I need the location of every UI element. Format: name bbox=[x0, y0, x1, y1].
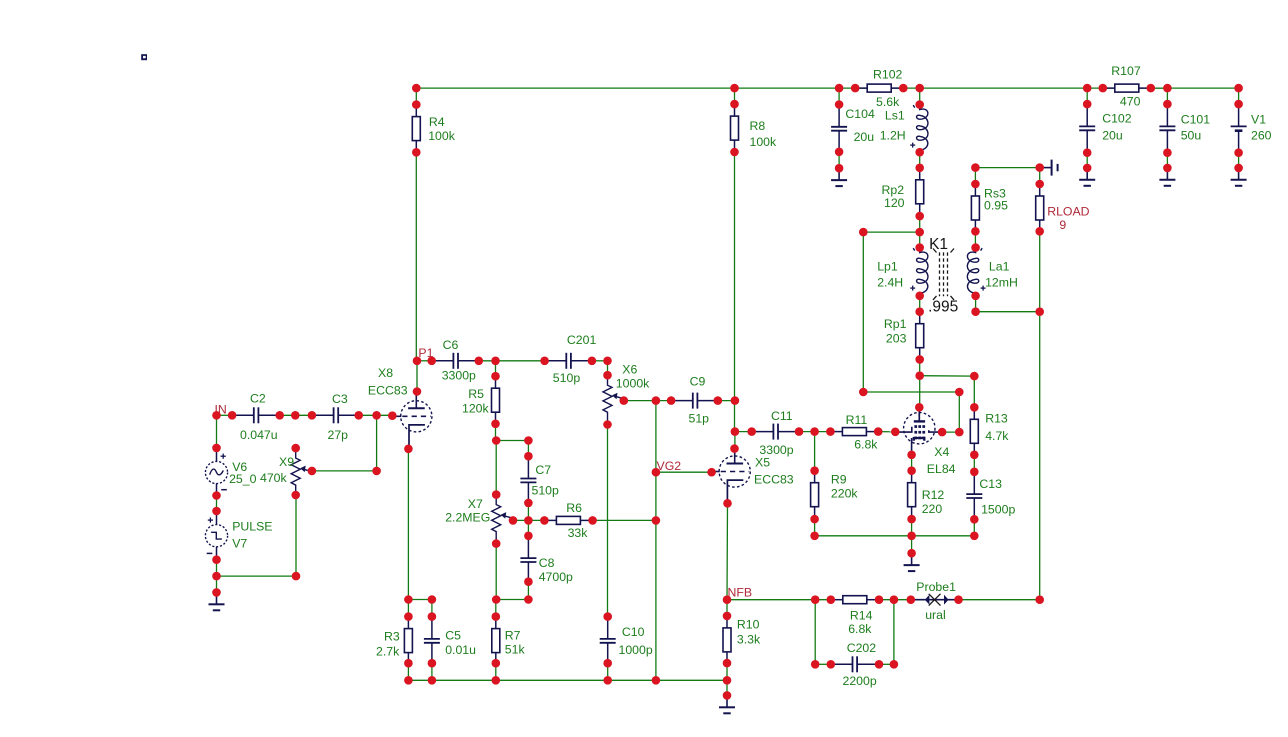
wire Rs3 to RLOAD top bbox=[975, 167, 1039, 169]
junction bbox=[212, 555, 221, 564]
svg-text:V7: V7 bbox=[232, 537, 247, 551]
wire bbox=[973, 519, 975, 536]
wire bbox=[496, 440, 528, 442]
junction bbox=[811, 595, 820, 604]
wire RLOAD to NFB row bbox=[1039, 312, 1041, 600]
wire bbox=[216, 496, 218, 512]
svg-text:R107: R107 bbox=[1111, 64, 1141, 78]
svg-text:1000p: 1000p bbox=[619, 643, 653, 657]
junction bbox=[428, 676, 437, 685]
resistor Rp2 bbox=[882, 168, 924, 216]
svg-text:C2: C2 bbox=[250, 392, 266, 406]
wire La1 to RLOAD bbox=[976, 311, 1040, 313]
capacitor C13 bbox=[966, 472, 1015, 520]
wire X6 to C10 bbox=[607, 425, 609, 617]
wire bbox=[280, 414, 312, 416]
wire X9 wiper row bbox=[312, 470, 377, 472]
svg-text:ECC83: ECC83 bbox=[754, 473, 794, 487]
junction bbox=[971, 227, 980, 236]
svg-text:6.8k: 6.8k bbox=[854, 438, 878, 452]
junction bbox=[492, 659, 501, 668]
junction bbox=[412, 84, 421, 93]
junction bbox=[954, 595, 963, 604]
ground X4 cathode bbox=[904, 553, 920, 571]
wire C202 right leg bbox=[893, 600, 895, 665]
svg-text:R12: R12 bbox=[922, 488, 945, 502]
capacitor C11 bbox=[752, 409, 800, 457]
wire bbox=[726, 663, 728, 680]
wire bbox=[359, 414, 393, 416]
wire bbox=[431, 663, 433, 680]
svg-text:VG2: VG2 bbox=[657, 459, 682, 473]
ground below C102 bbox=[1079, 168, 1095, 186]
svg-text:R13: R13 bbox=[985, 412, 1008, 426]
resistor Rp1 bbox=[884, 312, 924, 360]
inductor Lp1 bbox=[877, 248, 928, 296]
junction bbox=[524, 499, 533, 508]
svg-text:C104: C104 bbox=[845, 107, 875, 121]
resistor R3 bbox=[376, 617, 412, 665]
svg-text:510p: 510p bbox=[532, 484, 560, 498]
svg-text:2.2MEG: 2.2MEG bbox=[445, 511, 490, 525]
junction bbox=[730, 444, 739, 453]
potentiometer X9 bbox=[260, 448, 312, 496]
junction bbox=[827, 595, 836, 604]
svg-text:R4: R4 bbox=[429, 115, 445, 129]
svg-text:C201: C201 bbox=[567, 333, 597, 347]
wire bbox=[495, 361, 497, 376]
junction bbox=[971, 163, 980, 172]
junction bbox=[228, 411, 237, 420]
svg-text:R8: R8 bbox=[750, 119, 766, 133]
wire X7 wiper to R6 bbox=[513, 519, 544, 521]
wire bbox=[431, 600, 433, 617]
junction bbox=[1083, 148, 1092, 157]
junction bbox=[603, 659, 612, 668]
junction bbox=[915, 100, 924, 109]
junction bbox=[730, 100, 739, 109]
junction bbox=[524, 436, 533, 445]
svg-text:X6: X6 bbox=[622, 363, 637, 377]
svg-text:R7: R7 bbox=[505, 629, 521, 643]
resistor R107 bbox=[1103, 64, 1151, 108]
wire bbox=[495, 424, 497, 441]
capacitor C104 bbox=[831, 105, 875, 153]
svg-text:C202: C202 bbox=[847, 641, 877, 655]
junction bbox=[1035, 595, 1044, 604]
junction bbox=[915, 403, 924, 412]
resistor R7 bbox=[492, 617, 526, 665]
junction bbox=[652, 468, 661, 477]
wire bbox=[417, 360, 432, 362]
junction bbox=[835, 148, 844, 157]
wire bbox=[975, 296, 977, 312]
junction bbox=[428, 612, 437, 621]
junction bbox=[971, 243, 980, 252]
capacitor C102 bbox=[1079, 104, 1132, 152]
wire bbox=[216, 560, 218, 576]
capacitor C5 bbox=[424, 617, 476, 665]
junction bbox=[970, 451, 979, 460]
capacitor C9 bbox=[671, 374, 719, 425]
voltage source V1 bbox=[1231, 104, 1272, 152]
wire bbox=[878, 431, 895, 433]
wire bbox=[415, 88, 417, 105]
junction bbox=[971, 292, 980, 301]
junction bbox=[404, 676, 413, 685]
junction bbox=[970, 468, 979, 477]
capacitor C2 bbox=[232, 392, 280, 443]
junction bbox=[971, 180, 980, 189]
junction bbox=[428, 595, 437, 604]
potentiometer X6 bbox=[603, 363, 650, 424]
junction bbox=[404, 445, 413, 454]
wire bbox=[495, 600, 497, 617]
svg-text:3300p: 3300p bbox=[759, 443, 793, 457]
junction bbox=[730, 84, 739, 93]
junction bbox=[1234, 84, 1243, 93]
junction bbox=[723, 499, 732, 508]
wire bbox=[408, 599, 432, 601]
svg-text:6.8k: 6.8k bbox=[848, 622, 872, 636]
svg-text:C10: C10 bbox=[622, 625, 645, 639]
svg-text:1.2H: 1.2H bbox=[880, 128, 906, 142]
junction bbox=[652, 676, 661, 685]
wire bbox=[407, 663, 409, 680]
junction bbox=[427, 357, 436, 366]
wire input bottom row bbox=[217, 575, 297, 577]
wire X9 wiper up bbox=[376, 415, 378, 471]
svg-text:0.047u: 0.047u bbox=[240, 428, 278, 442]
wire X5 plate bbox=[734, 432, 736, 449]
svg-text:R10: R10 bbox=[737, 618, 760, 632]
node P1 label bbox=[418, 346, 433, 360]
svg-text:20u: 20u bbox=[1102, 128, 1123, 142]
capacitor C202 bbox=[831, 641, 879, 688]
resistor R4 bbox=[412, 105, 455, 153]
svg-text:R9: R9 bbox=[831, 473, 847, 487]
wire screen column bbox=[958, 392, 960, 432]
svg-text:R5: R5 bbox=[468, 387, 484, 401]
wire bbox=[942, 431, 959, 433]
junction bbox=[835, 100, 844, 109]
resistor Rs3 bbox=[971, 184, 1008, 232]
svg-text:X9: X9 bbox=[279, 455, 294, 469]
svg-text:0.95: 0.95 bbox=[984, 198, 1008, 212]
junction bbox=[1035, 307, 1044, 316]
wire bbox=[919, 216, 921, 232]
junction bbox=[955, 428, 964, 437]
junction bbox=[810, 466, 819, 475]
wire tap vertical bbox=[862, 232, 864, 392]
junction bbox=[827, 660, 836, 669]
junction bbox=[1163, 100, 1172, 109]
pentode X4 (EL84) bbox=[895, 407, 955, 476]
svg-text:C5: C5 bbox=[445, 629, 461, 643]
wire bbox=[799, 431, 830, 433]
wire to X7 top bbox=[495, 441, 497, 495]
junction bbox=[412, 148, 421, 157]
junction bbox=[875, 660, 884, 669]
wire bbox=[814, 432, 816, 471]
wire X6 wiper to C9 bbox=[624, 400, 671, 402]
junction bbox=[212, 588, 221, 597]
capacitor C7 bbox=[520, 456, 559, 504]
svg-text:La1: La1 bbox=[989, 260, 1010, 274]
junction bbox=[723, 612, 732, 621]
junction bbox=[588, 357, 597, 366]
junction bbox=[308, 467, 317, 476]
junction bbox=[388, 411, 397, 420]
junction bbox=[603, 676, 612, 685]
junction bbox=[811, 660, 820, 669]
svg-text:NFB: NFB bbox=[728, 586, 753, 600]
resistor R5 bbox=[462, 376, 500, 424]
wire bbox=[527, 441, 529, 457]
junction bbox=[491, 357, 500, 366]
svg-text:220k: 220k bbox=[831, 487, 859, 501]
junction bbox=[915, 243, 924, 252]
svg-text:C3: C3 bbox=[332, 392, 348, 406]
wire bbox=[838, 88, 840, 104]
junction bbox=[1035, 180, 1044, 189]
wire bbox=[718, 400, 735, 402]
capacitor C10 bbox=[600, 617, 653, 665]
svg-text:27p: 27p bbox=[328, 428, 349, 442]
junction bbox=[588, 516, 597, 525]
svg-text:470k: 470k bbox=[260, 471, 288, 485]
wire bbox=[911, 519, 913, 536]
junction bbox=[859, 228, 868, 237]
junction bbox=[1083, 84, 1092, 93]
probe Probe1 bbox=[911, 580, 959, 622]
resistor R8 bbox=[731, 104, 778, 152]
junction bbox=[652, 396, 661, 405]
svg-text:1500p: 1500p bbox=[981, 503, 1015, 517]
ground below V1 bbox=[1231, 168, 1247, 186]
wire bbox=[1166, 153, 1168, 168]
junction bbox=[723, 691, 732, 700]
junction bbox=[1083, 164, 1092, 173]
junction bbox=[915, 292, 924, 301]
junction bbox=[524, 577, 533, 586]
junction bbox=[723, 659, 732, 668]
resistor R10 bbox=[723, 616, 761, 664]
wire bbox=[216, 576, 218, 592]
junction bbox=[540, 516, 549, 525]
resistor R13 bbox=[970, 407, 1009, 455]
junction bbox=[851, 84, 860, 93]
ground input bbox=[209, 592, 225, 610]
wire bbox=[527, 520, 529, 535]
junction bbox=[747, 427, 756, 436]
junction bbox=[955, 388, 964, 397]
svg-text:2200p: 2200p bbox=[843, 674, 877, 688]
junction bbox=[1163, 84, 1172, 93]
wire bbox=[974, 231, 976, 247]
wire bbox=[973, 455, 975, 472]
svg-text:2.7k: 2.7k bbox=[376, 645, 400, 659]
junction bbox=[1083, 100, 1092, 109]
junction bbox=[291, 491, 300, 500]
svg-text:4.7k: 4.7k bbox=[985, 429, 1009, 443]
junction bbox=[907, 466, 916, 475]
ground below C104 bbox=[831, 168, 847, 186]
svg-text:120: 120 bbox=[884, 196, 905, 210]
svg-text:0.01u: 0.01u bbox=[445, 643, 476, 657]
svg-text:51k: 51k bbox=[505, 643, 526, 657]
junction bbox=[915, 355, 924, 364]
wire bbox=[1039, 168, 1041, 184]
wire X9 bottom bbox=[295, 495, 297, 576]
junction bbox=[875, 595, 884, 604]
junction bbox=[492, 539, 501, 548]
junction bbox=[915, 371, 924, 380]
wire bbox=[607, 663, 609, 680]
svg-text:C13: C13 bbox=[979, 477, 1002, 491]
wire bbox=[1039, 231, 1041, 311]
inductor Ls1 bbox=[880, 105, 928, 153]
junction bbox=[372, 467, 381, 476]
junction bbox=[212, 491, 221, 500]
svg-text:X5: X5 bbox=[755, 456, 770, 470]
svg-text:ECC83: ECC83 bbox=[368, 383, 408, 397]
junction bbox=[859, 388, 868, 397]
junction bbox=[308, 411, 317, 420]
wire bbox=[919, 232, 921, 248]
junction bbox=[970, 403, 979, 412]
svg-text:51p: 51p bbox=[689, 411, 710, 425]
junction bbox=[404, 659, 413, 668]
wire bbox=[879, 663, 894, 665]
wire plate to R13 bbox=[919, 375, 975, 377]
junction bbox=[874, 427, 883, 436]
junction bbox=[1163, 148, 1172, 157]
capacitor C3 bbox=[312, 392, 360, 442]
junction bbox=[707, 468, 716, 477]
junction bbox=[292, 572, 301, 581]
junction bbox=[603, 420, 612, 429]
wire VG2 to X5 grid bbox=[656, 471, 712, 473]
junction bbox=[212, 411, 221, 420]
resistor R12 bbox=[908, 471, 945, 519]
junction bbox=[509, 516, 518, 525]
junction bbox=[212, 572, 221, 581]
junction bbox=[970, 515, 979, 524]
wire bbox=[973, 376, 975, 407]
wire bbox=[838, 152, 840, 168]
junction bbox=[1163, 164, 1172, 173]
voltage source V7 bbox=[205, 511, 272, 560]
wire top supply rail bbox=[416, 87, 1238, 89]
wire bbox=[911, 536, 913, 553]
svg-text:1000k: 1000k bbox=[616, 377, 650, 391]
wire bbox=[919, 152, 921, 168]
junction bbox=[491, 372, 500, 381]
wire bbox=[1238, 88, 1240, 104]
junction bbox=[938, 428, 947, 437]
junction bbox=[899, 84, 908, 93]
wire bbox=[1151, 87, 1168, 89]
junction bbox=[907, 532, 916, 541]
wire bbox=[527, 503, 529, 521]
ground below R10 bbox=[719, 695, 735, 713]
wire bbox=[814, 519, 816, 536]
wire probe to RLOAD column bbox=[959, 599, 1040, 601]
node IN label bbox=[215, 403, 227, 417]
junction bbox=[1099, 84, 1108, 93]
junction bbox=[890, 595, 899, 604]
junction bbox=[413, 387, 422, 396]
ground at RLOAD top bbox=[1040, 160, 1058, 176]
svg-text:R6: R6 bbox=[566, 501, 582, 515]
triode X8 (ECC83) bbox=[368, 366, 432, 449]
wire bbox=[726, 600, 728, 616]
junction bbox=[492, 436, 501, 445]
junction bbox=[915, 84, 924, 93]
wire R8 to X5 plate node bbox=[734, 152, 736, 432]
svg-text:R102: R102 bbox=[873, 68, 903, 82]
junction bbox=[540, 357, 549, 366]
svg-text:RLOAD: RLOAD bbox=[1047, 205, 1089, 219]
wire bbox=[216, 415, 218, 448]
junction bbox=[731, 427, 740, 436]
wire bbox=[735, 431, 752, 433]
svg-text:X8: X8 bbox=[378, 366, 393, 380]
junction bbox=[372, 411, 381, 420]
junction bbox=[212, 507, 221, 516]
ground below C101 bbox=[1159, 168, 1175, 186]
junction bbox=[714, 396, 723, 405]
junction bbox=[291, 411, 300, 420]
junction bbox=[354, 411, 363, 420]
junction bbox=[492, 676, 501, 685]
svg-text:100k: 100k bbox=[750, 135, 778, 149]
wire R6 right bbox=[593, 519, 656, 521]
svg-text:.995: .995 bbox=[928, 299, 958, 316]
wire C202 left leg bbox=[814, 600, 816, 665]
junction bbox=[890, 660, 899, 669]
junction bbox=[413, 357, 422, 366]
svg-text:EL84: EL84 bbox=[927, 462, 956, 476]
svg-text:9: 9 bbox=[1059, 218, 1066, 232]
wire bbox=[726, 680, 728, 695]
junction bbox=[730, 148, 739, 157]
junction bbox=[291, 444, 300, 453]
junction bbox=[1035, 163, 1044, 172]
junction bbox=[475, 357, 484, 366]
junction bbox=[412, 100, 421, 109]
capacitor C6 bbox=[432, 338, 480, 383]
junction bbox=[826, 427, 835, 436]
wire tap horizontal bbox=[863, 231, 919, 233]
capacitor C201 bbox=[545, 333, 597, 385]
svg-text:120k: 120k bbox=[462, 401, 490, 415]
capacitor C8 bbox=[520, 536, 573, 584]
junction bbox=[667, 396, 676, 405]
junction bbox=[524, 452, 533, 461]
svg-text:C9: C9 bbox=[690, 374, 706, 388]
junction bbox=[404, 595, 413, 604]
wire bbox=[919, 88, 921, 105]
junction bbox=[915, 212, 924, 221]
wire X7 to R7 row bbox=[495, 544, 497, 600]
junction bbox=[492, 595, 501, 604]
wire X5 cathode to NFB bbox=[726, 503, 729, 599]
junction bbox=[1147, 84, 1156, 93]
junction bbox=[492, 490, 501, 499]
junction bbox=[907, 515, 916, 524]
